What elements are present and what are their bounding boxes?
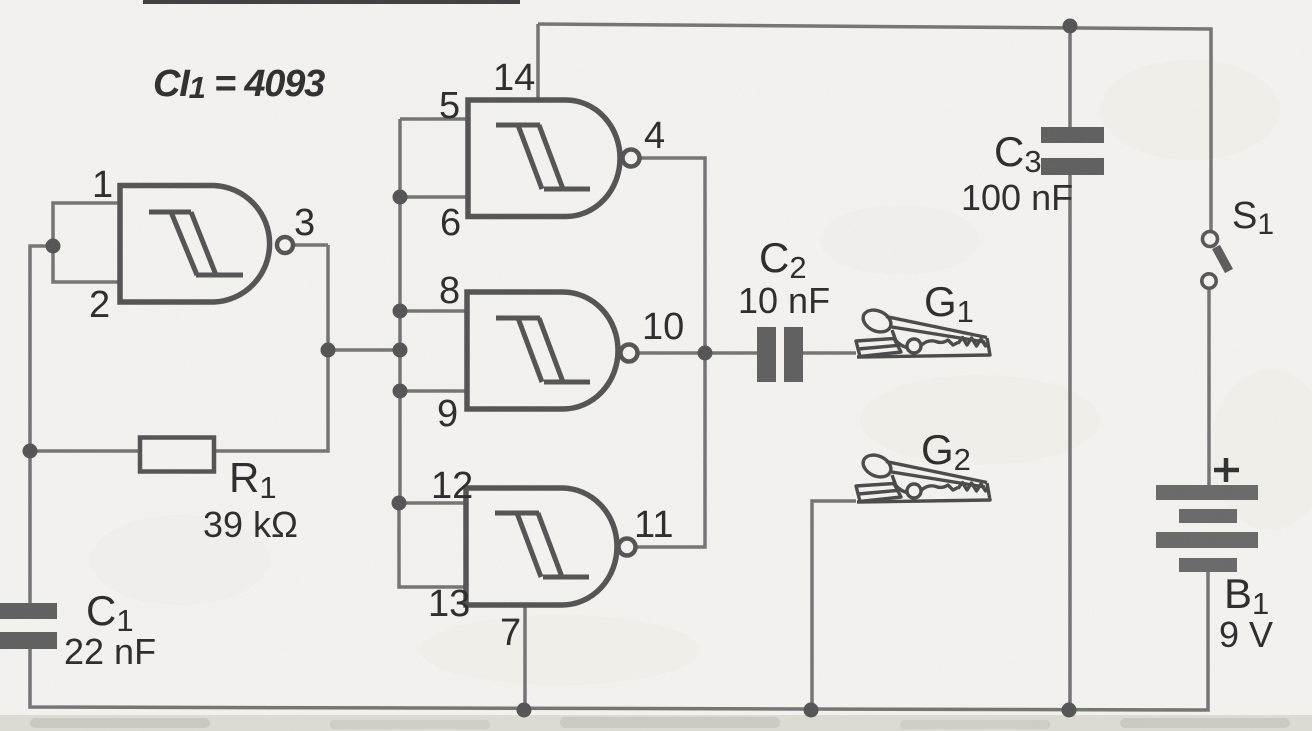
wire: left rail below C1 to bottom rail xyxy=(30,572,1208,710)
wire: pin12 stub xyxy=(399,501,466,505)
gate U1B schmitt symbol xyxy=(496,125,590,189)
wire: input bus vertical xyxy=(398,119,402,503)
node: output bus C2 junction xyxy=(698,346,713,361)
wire: pin9 stub xyxy=(400,389,467,393)
resistor R1 xyxy=(140,438,214,472)
wire: pin5 stub xyxy=(400,117,468,121)
node: bottom rail G2 xyxy=(804,703,819,718)
gate U1B output bubble pin4 xyxy=(623,150,640,167)
gate U1D output bubble pin11 xyxy=(619,539,636,556)
node: pins1-2 junction xyxy=(46,239,61,254)
wire: R1 right lead up to node xyxy=(214,245,328,451)
NAND gate U1B body (pins 5,6 -> 4) xyxy=(468,100,620,217)
wire: gate1 output to vertical xyxy=(293,243,328,247)
node: bus pin8 xyxy=(393,304,408,319)
wire: C3 bottom branch xyxy=(1068,175,1072,710)
capacitor C3 plates xyxy=(1041,127,1104,143)
wire: pin7 down to bottom rail xyxy=(523,604,527,710)
switch S1 xyxy=(1203,232,1218,247)
NAND gate U1C body (pins 8,9 -> 10) xyxy=(467,292,618,409)
wire: gate3 output xyxy=(636,351,705,355)
node: bus mid xyxy=(393,343,408,358)
capacitor C2 plates xyxy=(757,327,776,382)
node: bus pin9 xyxy=(393,384,408,399)
gate U1C schmitt symbol xyxy=(496,318,590,382)
wire: pin14 up to top rail xyxy=(536,24,540,100)
wire: pin8 stub xyxy=(400,309,467,313)
wire: C3 top branch xyxy=(1068,26,1072,127)
node: bus pin6 xyxy=(393,190,408,205)
alligator clip G1 xyxy=(856,306,990,357)
gate U1C output bubble pin10 xyxy=(621,345,638,362)
top edge printing artifact xyxy=(143,0,520,4)
wire: gate2 output down to gate4 output xyxy=(636,158,705,547)
wire: node to bus xyxy=(328,348,400,352)
battery B1 plates xyxy=(1156,485,1258,500)
alligator clip G2 xyxy=(856,451,990,502)
gate U1A output bubble pin3 xyxy=(277,237,293,253)
NAND gate U1D body (pins 12,13 -> 11) xyxy=(466,488,617,605)
gate U1D schmitt symbol xyxy=(495,513,589,577)
capacitor C1 plates xyxy=(0,603,57,619)
wire: bracket pin13 xyxy=(399,503,466,587)
node: bottom rail C3 xyxy=(1062,703,1077,718)
wire: R1 left lead xyxy=(30,449,140,453)
node: gate1 output node xyxy=(321,343,336,358)
node: top rail C3 junction xyxy=(1063,19,1078,34)
node: bus pin12 xyxy=(392,496,407,511)
wire: top rail xyxy=(538,24,1211,231)
wire: gate1 input bracket pins 1-2 xyxy=(53,203,120,282)
wire: S1 to battery xyxy=(1207,290,1211,485)
NAND gate U1A body (pins 1,2 -> 3) xyxy=(120,186,270,303)
gate U1A schmitt symbol xyxy=(149,212,243,275)
wire: pin6 stub xyxy=(400,195,468,199)
node: left rail R1 junction xyxy=(23,444,38,459)
battery plus sign xyxy=(1214,458,1239,482)
wire: G2 lead down to bottom rail xyxy=(812,501,856,710)
wire: C2 right lead to G1 xyxy=(803,351,856,355)
wire: junction to left rail xyxy=(30,246,53,604)
node: bottom rail pin7 xyxy=(517,703,532,718)
wire: C2 left lead xyxy=(705,351,757,355)
